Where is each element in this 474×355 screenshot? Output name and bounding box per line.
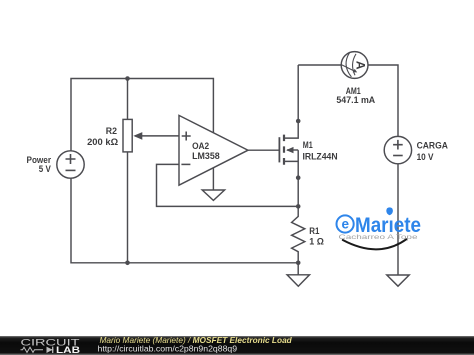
svg-text:IRLZ44N: IRLZ44N (303, 151, 338, 162)
node source wire dot (296, 175, 301, 180)
transistor M1 body arrowhead (286, 147, 293, 153)
transistor M1 gate bar (278, 137, 280, 162)
op-amp OA2 body (179, 115, 248, 185)
svg-text:R1: R1 (309, 226, 320, 237)
ground op-amp (202, 190, 224, 200)
svg-text:200 kΩ: 200 kΩ (87, 137, 118, 148)
transistor M1 channel segments (283, 135, 285, 165)
voltage source CARGA minus (393, 155, 403, 157)
voltage source Power plus (66, 154, 76, 164)
node top rail / R2 junction (125, 76, 130, 81)
ammeter AM1 needle (341, 64, 354, 71)
transistor M1 drain lead (285, 65, 298, 138)
logo circled e ring (337, 215, 354, 232)
node feedback / R1 top junction (296, 204, 301, 209)
wire CARGA bottom to ground (397, 164, 399, 275)
logo i balloon dot (386, 207, 393, 215)
svg-text:A: A (353, 61, 367, 70)
voltage source CARGA body (384, 136, 411, 163)
transistor M1 body arrow wire (287, 149, 298, 151)
node bottom rail / R2 junction (125, 261, 130, 266)
wire R2 top branch (127, 79, 129, 120)
wire op-amp ground stub (212, 168, 214, 190)
ammeter AM1 letter A (353, 61, 367, 70)
svg-text:CARGA: CARGA (417, 141, 448, 152)
potentiometer R2 body (123, 119, 132, 151)
ammeter AM1 body (341, 52, 368, 79)
svg-text:1 Ω: 1 Ω (309, 237, 324, 248)
wire R2 bottom to ground rail (127, 153, 129, 263)
svg-text:5 V: 5 V (39, 164, 52, 175)
svg-text:http://circuitlab.com/c2p8n9n2: http://circuitlab.com/c2p8n9n2q88q9 (98, 344, 238, 354)
resistor R1 zigzag (292, 206, 305, 262)
svg-text:10 V: 10 V (417, 152, 434, 163)
potentiometer R2 wiper arrowhead (133, 132, 142, 140)
voltage source CARGA plus (393, 140, 403, 150)
node drain wire dot (296, 119, 301, 124)
transistor M1 source lead (285, 150, 298, 206)
svg-text:R2: R2 (106, 126, 117, 137)
wire feedback from minus input (157, 164, 299, 206)
svg-text:Cacharreo A Tope: Cacharreo A Tope (339, 234, 419, 241)
footer CircuitLab logo squiggle wire (21, 347, 54, 352)
ammeter AM1 needle arrowhead (353, 69, 358, 73)
svg-text:M1: M1 (303, 140, 313, 151)
svg-text:e: e (341, 217, 349, 232)
op-amp OA2 minus input marker (181, 163, 190, 165)
eMariete logo group (337, 207, 422, 249)
voltage source Power body (57, 151, 84, 178)
svg-text:LAB: LAB (56, 345, 81, 355)
op-amp OA2 plus input marker (182, 132, 191, 141)
wire R1 bottom ground stub (297, 263, 299, 275)
wire top rail from power to op-amp supply (71, 79, 213, 152)
wire ammeter to CARGA (368, 65, 398, 136)
svg-text:LM358: LM358 (192, 151, 220, 162)
potentiometer R2 wiper wire (135, 135, 179, 137)
svg-text:547.1 mA: 547.1 mA (336, 95, 375, 106)
ground R1 (287, 275, 309, 286)
wire op-amp output to gate (248, 149, 279, 151)
wire drain to ammeter (298, 64, 341, 66)
node bottom rail / R1 junction (296, 261, 301, 266)
footer CircuitLab logo diode (47, 347, 53, 353)
ground CARGA (387, 275, 409, 286)
wire power bottom to ground rail (71, 178, 298, 263)
ammeter AM1 scale arcs (346, 52, 356, 77)
logo swoosh (343, 239, 407, 249)
voltage source Power minus (66, 169, 76, 171)
